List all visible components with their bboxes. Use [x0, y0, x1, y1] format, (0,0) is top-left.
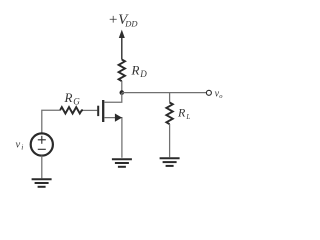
wire RL branch top	[169, 93, 171, 103]
svg-text:R: R	[177, 106, 186, 120]
power supply arrow	[119, 30, 125, 60]
transistor Q1 channel bar	[102, 100, 104, 122]
transistor Q1 source arrowhead	[115, 114, 122, 122]
wire vi top to RG	[42, 110, 60, 133]
wire RL to ground	[169, 124, 171, 157]
supply label +VDD	[108, 12, 138, 29]
ground under RL	[160, 158, 180, 166]
ground under source	[112, 159, 132, 167]
terminal output open circle	[206, 90, 211, 95]
svg-text:v: v	[16, 140, 21, 151]
resistor RG	[60, 107, 83, 113]
wire vi bottom to ground	[41, 156, 43, 179]
resistor RL	[166, 103, 172, 125]
wire output horizontal	[122, 92, 206, 94]
label vo	[215, 88, 224, 100]
transistor Q1 gate bar	[97, 106, 99, 116]
label RG	[64, 90, 81, 107]
wire RD bottom to drain node	[121, 81, 123, 93]
node drain junction dot	[120, 90, 125, 95]
ground under vi	[32, 179, 52, 187]
transistor Q1 drain lead	[104, 93, 122, 102]
label RL	[177, 106, 190, 121]
resistor RD	[119, 60, 125, 82]
label vi	[16, 140, 24, 152]
svg-text:G: G	[73, 96, 80, 106]
svg-text:i: i	[21, 143, 23, 152]
svg-text:L: L	[185, 113, 190, 121]
source vi minus sign	[38, 148, 46, 150]
svg-text:DD: DD	[124, 19, 138, 29]
wire gate lead	[83, 109, 97, 111]
svg-text:R: R	[131, 63, 140, 78]
source vi plus sign	[38, 136, 46, 144]
svg-text:D: D	[139, 69, 147, 79]
transistor Q1 source lead	[104, 118, 122, 158]
svg-text:o: o	[219, 93, 223, 100]
label RD	[131, 63, 148, 80]
svg-text:R: R	[64, 90, 73, 105]
source vi circle	[31, 133, 53, 155]
